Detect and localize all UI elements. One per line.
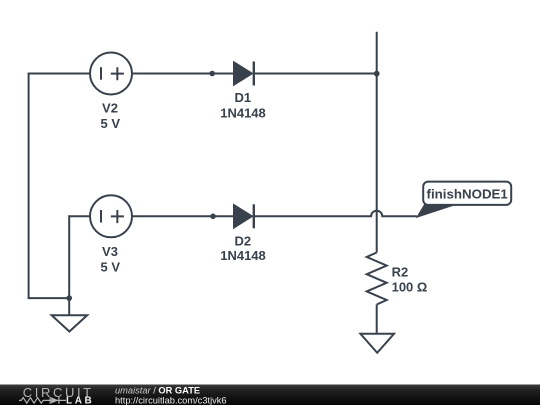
wire V3 to D2	[132, 215, 234, 217]
voltage source V2	[90, 53, 132, 95]
wire left rail vertical	[28, 73, 30, 299]
svg-text:LAB: LAB	[66, 395, 94, 405]
junction dot row2	[210, 214, 216, 220]
svg-text:umaistar / OR GATE: umaistar / OR GATE	[115, 386, 200, 396]
wire row1 left: V2 left terminal to left rail	[29, 73, 91, 75]
ground GND1 stem	[68, 298, 70, 315]
footer logo diode glyph	[51, 397, 58, 403]
footer bar	[0, 385, 540, 405]
diode D2	[234, 204, 254, 228]
svg-text:D2: D2	[234, 234, 251, 249]
junction dot node	[374, 71, 380, 77]
voltage source V3	[90, 195, 132, 237]
junction dot row1	[209, 71, 215, 77]
diode D1	[234, 62, 254, 86]
ground GND1	[52, 315, 88, 331]
svg-text:V2: V2	[102, 101, 118, 116]
svg-text:100 Ω: 100 Ω	[392, 280, 428, 295]
svg-text:5 V: 5 V	[101, 116, 121, 131]
svg-text:1N4148: 1N4148	[220, 248, 266, 263]
wire bottom horizontal to ground junction	[28, 297, 70, 299]
wire R2 to ground	[376, 305, 378, 334]
footer logo squiggle	[19, 397, 66, 404]
wire D1 to node rail	[255, 73, 377, 75]
svg-text:D1: D1	[234, 90, 251, 105]
svg-text:http://circuitlab.com/c3tjvk6: http://circuitlab.com/c3tjvk6	[115, 396, 227, 405]
wire node rail vertical	[376, 32, 378, 253]
ground GND2	[360, 334, 394, 353]
svg-text:finishNODE1: finishNODE1	[427, 186, 509, 201]
junction dot ground	[66, 295, 72, 301]
wire D2 to flag with hop over node rail	[255, 211, 417, 217]
svg-text:5 V: 5 V	[101, 260, 121, 275]
wire V2 to D1	[132, 73, 234, 75]
wire V3 drop to ground junction	[68, 215, 70, 298]
resistor R2	[367, 253, 387, 305]
wire V3 left terminal	[69, 215, 90, 217]
node flag finishNODE1 tail	[417, 203, 459, 217]
svg-text:1N4148: 1N4148	[220, 105, 266, 120]
svg-text:R2: R2	[392, 264, 409, 279]
svg-text:V3: V3	[102, 244, 118, 259]
node flag finishNODE1 box	[423, 182, 511, 205]
